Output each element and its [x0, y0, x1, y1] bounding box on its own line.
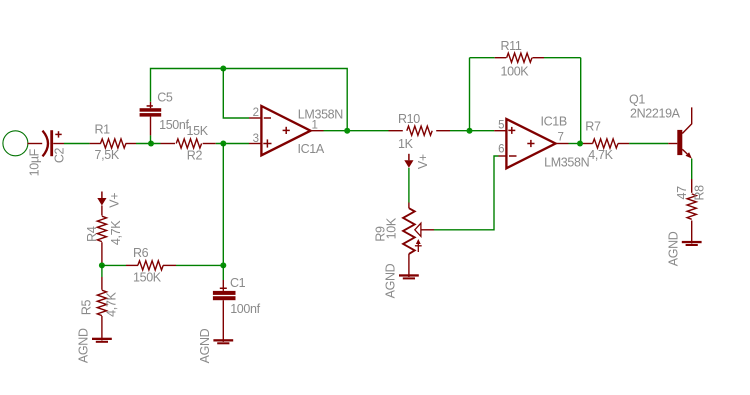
ground AGND (pot) — [399, 274, 419, 279]
svg-text:2N2219A: 2N2219A — [630, 107, 681, 121]
svg-text:2: 2 — [253, 107, 259, 119]
svg-text:150nf: 150nf — [159, 118, 189, 132]
potentiometer R9 — [403, 203, 434, 278]
node junction — [577, 141, 583, 147]
svg-text:7: 7 — [558, 132, 564, 144]
svg-text:AGND: AGND — [667, 231, 681, 266]
wire emitter — [691, 159, 693, 179]
svg-text:R6: R6 — [133, 246, 149, 260]
svg-text:R1: R1 — [95, 123, 111, 137]
node junction pin3 — [220, 141, 226, 147]
wire — [64, 143, 90, 145]
resistor R1 — [90, 139, 136, 148]
resistor R6 — [102, 261, 223, 270]
svg-text:1K: 1K — [398, 137, 414, 151]
svg-text:100K: 100K — [501, 65, 530, 79]
node junction C1 — [220, 262, 226, 268]
svg-text:R8: R8 — [693, 185, 707, 201]
node junction — [220, 66, 226, 72]
node junction — [344, 128, 350, 134]
svg-text:R2: R2 — [187, 149, 203, 163]
svg-text:C1: C1 — [230, 276, 246, 290]
wire — [150, 135, 152, 143]
svg-text:4,7K: 4,7K — [109, 220, 123, 245]
V+ symbol (pot) — [404, 154, 413, 168]
svg-text:IC1B: IC1B — [541, 115, 567, 129]
svg-text:150K: 150K — [133, 271, 162, 285]
svg-text:100nf: 100nf — [230, 302, 260, 316]
svg-text:C2: C2 — [52, 147, 66, 163]
svg-text:3: 3 — [253, 133, 259, 145]
capacitor C1 — [213, 265, 236, 342]
resistor R5 — [97, 265, 106, 340]
svg-text:R7: R7 — [585, 120, 601, 134]
svg-text:47: 47 — [675, 186, 689, 200]
svg-text:V+: V+ — [416, 154, 430, 169]
svg-text:AGND: AGND — [76, 328, 90, 363]
capacitor C5 — [140, 102, 162, 136]
V+ symbol (R4) — [97, 192, 106, 206]
node junction — [148, 141, 154, 147]
node junction pin5 — [467, 128, 473, 134]
svg-text:10µF: 10µF — [28, 148, 42, 176]
ground AGND (C1) — [213, 339, 233, 344]
svg-text:4,7K: 4,7K — [588, 148, 613, 162]
resistor R11 — [470, 53, 581, 62]
wire — [408, 168, 410, 203]
wire down to R6/C1 node — [222, 144, 224, 266]
ground AGND (R8) — [682, 241, 702, 246]
svg-text:AGND: AGND — [384, 263, 398, 298]
svg-text:LM358N: LM358N — [298, 107, 343, 121]
wire pot wiper to pin6 — [434, 156, 499, 230]
svg-text:6: 6 — [498, 144, 504, 156]
capacitor C2 — [27, 130, 64, 156]
svg-text:R4: R4 — [85, 226, 99, 242]
svg-text:5: 5 — [498, 120, 504, 132]
transistor Q1 — [668, 107, 692, 158]
op-amp IC1A — [249, 106, 324, 155]
wire — [629, 143, 668, 145]
svg-text:4,7K: 4,7K — [105, 292, 119, 317]
svg-text:R5: R5 — [80, 299, 94, 315]
resistor R7 — [583, 139, 629, 148]
svg-text:R11: R11 — [501, 39, 522, 53]
svg-text:LM358N: LM358N — [544, 155, 589, 169]
wire to pin 2 — [223, 69, 249, 119]
wire feedback top — [151, 69, 348, 131]
svg-text:15K: 15K — [187, 124, 209, 138]
svg-text:10K: 10K — [384, 217, 398, 239]
resistor R2 — [161, 139, 216, 148]
op-amp IC1B — [494, 119, 568, 168]
wire R11 right vertical — [580, 58, 582, 144]
wire R11 left vertical — [469, 58, 471, 131]
wire — [450, 130, 494, 132]
resistor R8 — [687, 179, 696, 244]
svg-text:Q1: Q1 — [629, 93, 645, 107]
wire IC1B out — [569, 143, 584, 145]
svg-text:R10: R10 — [398, 112, 420, 126]
svg-text:V+: V+ — [108, 193, 122, 208]
resistor R10 — [389, 126, 451, 135]
svg-text:IC1A: IC1A — [298, 142, 325, 156]
wire — [136, 143, 161, 145]
svg-text:AGND: AGND — [198, 328, 212, 363]
input connector circle — [3, 131, 28, 156]
node junction R4/R5/R6 — [99, 262, 105, 268]
svg-text:7,5K: 7,5K — [95, 148, 120, 162]
wire IC1A out — [324, 130, 389, 132]
resistor R4 — [97, 206, 106, 265]
svg-text:C5: C5 — [157, 90, 173, 104]
wire — [216, 143, 249, 145]
ground AGND (R5) — [92, 338, 112, 343]
svg-text:1: 1 — [312, 120, 318, 132]
